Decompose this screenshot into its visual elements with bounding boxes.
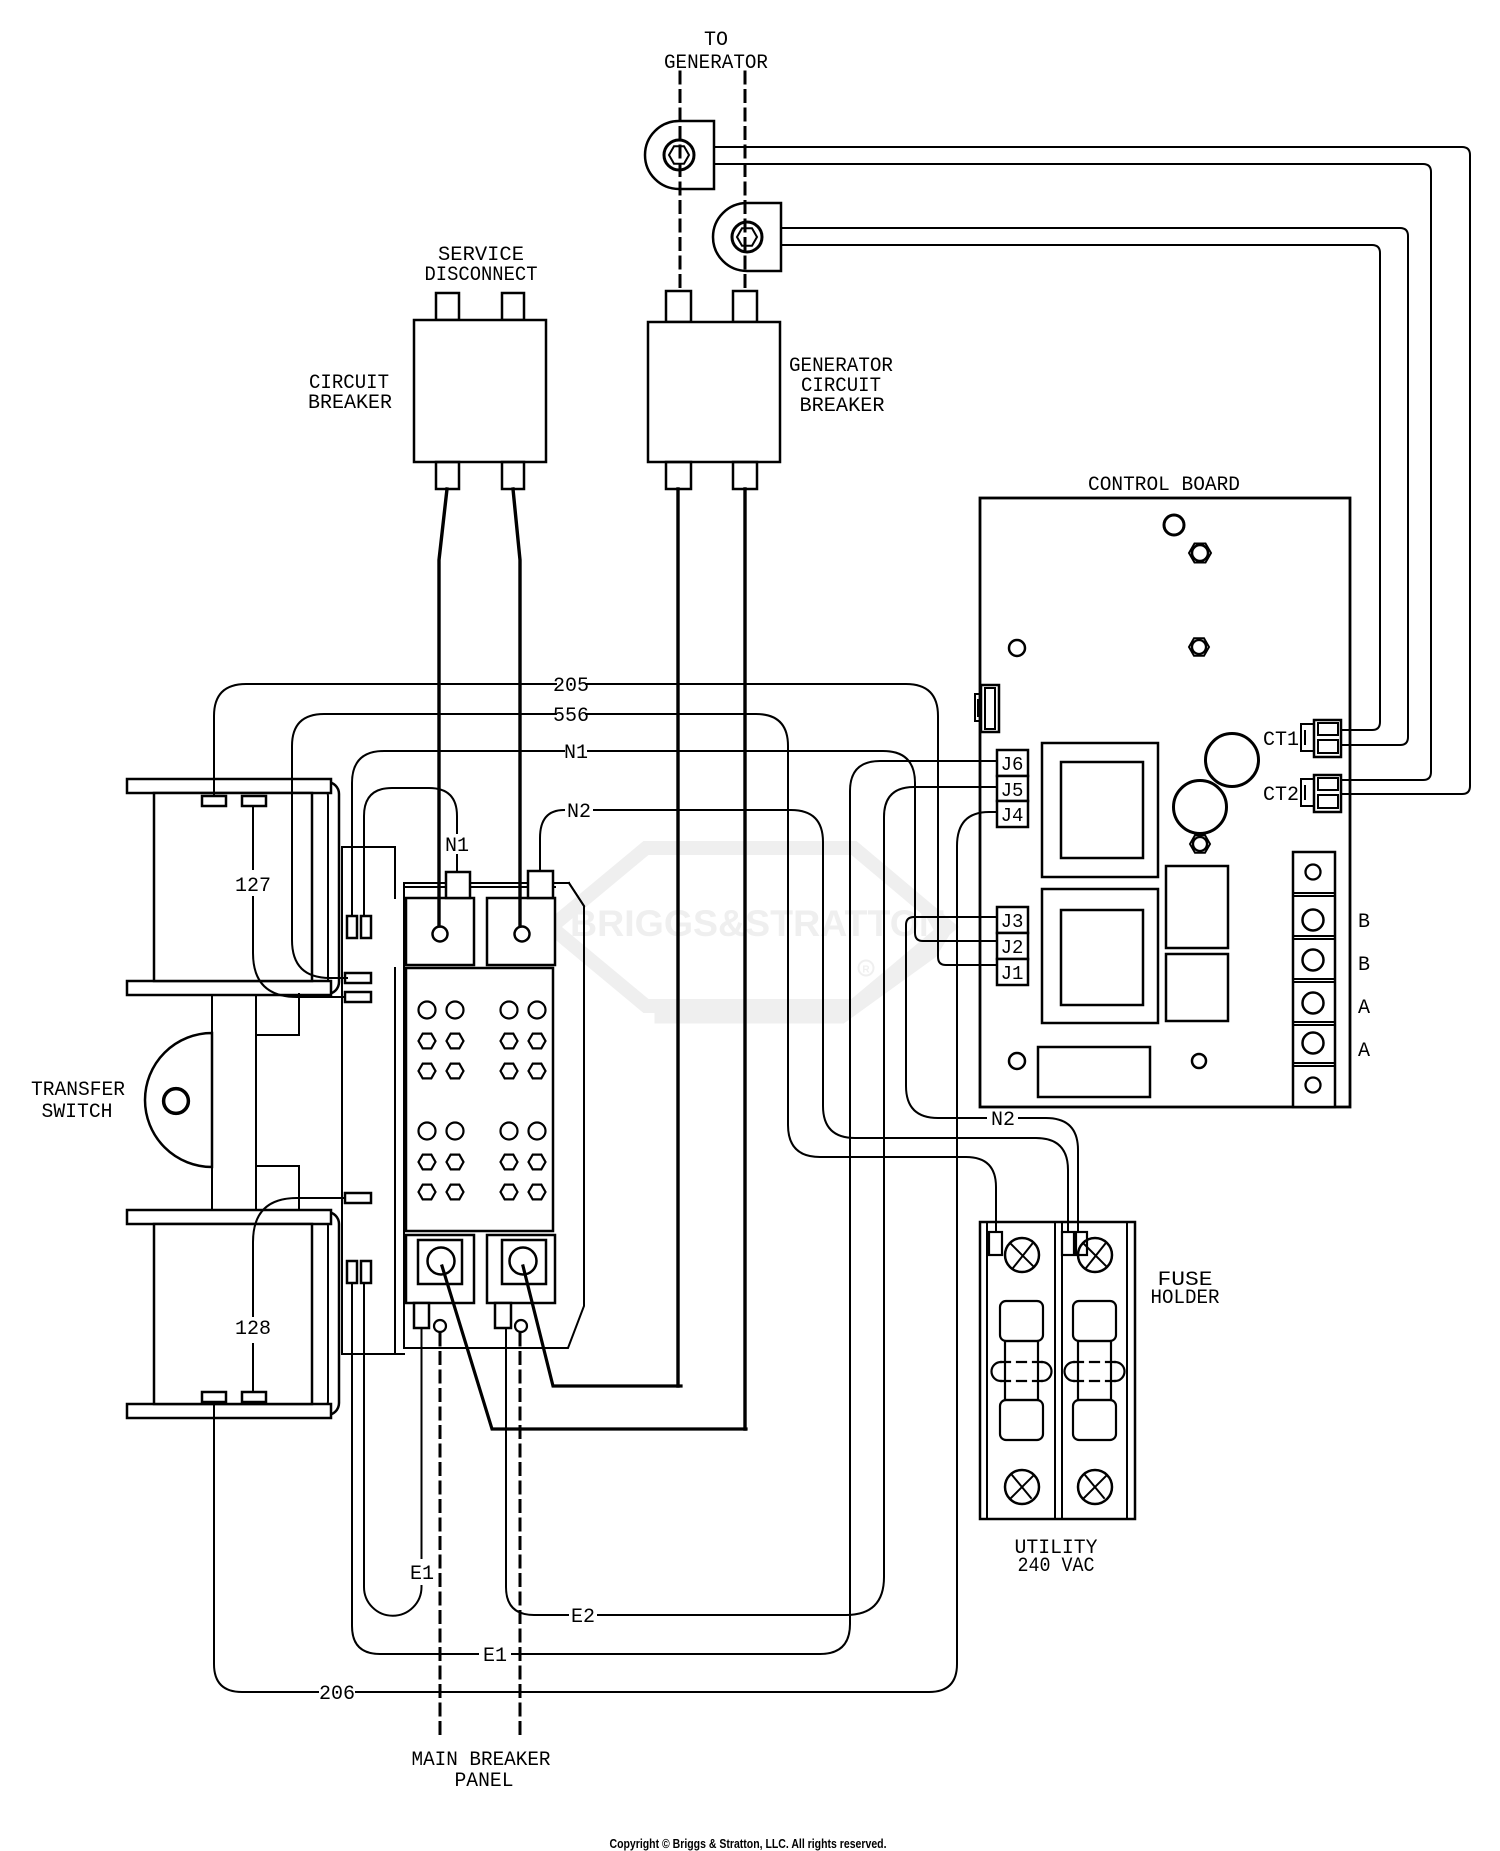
main lug grid section xyxy=(406,968,553,1231)
lug bottom pin right xyxy=(495,1303,527,1332)
fuse screw bottom-right xyxy=(1078,1470,1112,1504)
main lug block top band xyxy=(404,883,584,1348)
board hole mid xyxy=(1189,638,1209,655)
board hole bottom-left xyxy=(1009,1053,1025,1069)
capacitor C1 xyxy=(1206,734,1259,787)
svg-text:E1: E1 xyxy=(410,1563,434,1586)
svg-text:CT1: CT1 xyxy=(1263,729,1299,752)
coil 127 terminal bar left xyxy=(202,796,226,806)
watermark xyxy=(551,848,948,1018)
label TO GENERATOR xyxy=(664,29,768,75)
terminal bar aux lower xyxy=(345,1193,371,1203)
connector J1 xyxy=(997,959,1028,985)
transfer switch coil 128 body xyxy=(154,1224,312,1404)
generator circuit breaker xyxy=(648,291,780,489)
control board outline xyxy=(980,498,1350,1107)
transfer switch coil 128 frame xyxy=(205,1212,339,1415)
wire 205 xyxy=(214,684,997,965)
fuse screw top-left xyxy=(1005,1238,1039,1272)
connector pair lower xyxy=(347,1261,371,1283)
main lug lug box right xyxy=(487,1235,555,1303)
fuse terminal F2a xyxy=(1062,1232,1074,1255)
fuse element right xyxy=(1065,1301,1125,1440)
transfer switch coil 127 flange bottom xyxy=(127,981,331,995)
fuse element left xyxy=(992,1301,1052,1440)
svg-text:N2: N2 xyxy=(567,801,591,824)
svg-text:DISCONNECT: DISCONNECT xyxy=(425,264,538,287)
svg-text:BRIGGS&STRATTON: BRIGGS&STRATTON xyxy=(570,903,946,944)
board mounting hole top xyxy=(1164,515,1184,535)
wire CT2 b xyxy=(781,245,1380,730)
wire 556 xyxy=(292,714,996,1232)
wire service disconnect right xyxy=(513,489,520,926)
wire 206 xyxy=(214,812,997,1692)
svg-text:BREAKER: BREAKER xyxy=(800,395,885,418)
svg-text:J3: J3 xyxy=(1001,911,1024,933)
svg-text:HOLDER: HOLDER xyxy=(1151,1287,1220,1310)
svg-text:J4: J4 xyxy=(1001,805,1024,827)
connector J3 xyxy=(997,907,1028,933)
terminal screw right xyxy=(515,927,530,942)
main lug terminal box N2 xyxy=(487,898,555,965)
current transformer CT1 xyxy=(645,121,714,189)
svg-text:A: A xyxy=(1358,1040,1370,1063)
svg-text:N2: N2 xyxy=(991,1109,1015,1132)
transfer switch armature step bottom xyxy=(256,1166,299,1210)
svg-text:R: R xyxy=(862,965,870,976)
label GENERATOR CIRCUIT BREAKER xyxy=(789,355,893,418)
svg-text:128: 128 xyxy=(235,1318,271,1341)
transfer switch coil 127 frame xyxy=(205,782,339,994)
fuse terminal F2b xyxy=(1076,1232,1087,1255)
coil 128 terminal bar left xyxy=(202,1392,226,1402)
svg-text:J2: J2 xyxy=(1001,937,1024,959)
transfer switch armature step top xyxy=(256,994,299,1035)
label UTILITY 240 VAC xyxy=(1015,1537,1098,1578)
service disconnect breaker xyxy=(414,293,546,489)
coil 128 terminal bar right xyxy=(242,1392,266,1402)
label TRANSFER SWITCH xyxy=(31,1079,125,1124)
label MAIN BREAKER PANEL xyxy=(412,1749,551,1793)
label SERVICE DISCONNECT xyxy=(425,244,538,287)
transfer switch coil 127 body xyxy=(154,793,312,981)
svg-text:CONTROL BOARD: CONTROL BOARD xyxy=(1088,474,1240,497)
svg-text:TRANSFER: TRANSFER xyxy=(31,1079,125,1102)
board hole left xyxy=(1009,640,1025,656)
wire E1 xyxy=(352,761,997,1654)
terminal screw left xyxy=(433,927,448,942)
svg-text:CT2: CT2 xyxy=(1263,784,1299,807)
label CIRCUIT BREAKER xyxy=(308,372,392,415)
board nut top xyxy=(1189,544,1211,563)
wire E1 lug U-turn xyxy=(364,1283,422,1616)
board bottom rect xyxy=(1038,1047,1150,1097)
main lug hex nut grid xyxy=(418,1002,545,1200)
svg-text:205: 205 xyxy=(553,675,589,698)
terminal square N2 xyxy=(528,871,553,898)
transfer switch actuator half-circle xyxy=(145,1033,212,1167)
wire N1 xyxy=(352,751,997,941)
svg-text:B: B xyxy=(1358,954,1370,977)
wire 127 label lead xyxy=(253,806,345,997)
svg-text:A: A xyxy=(1358,997,1370,1020)
wire service disconnect left xyxy=(439,489,447,926)
svg-text:TO: TO xyxy=(704,29,728,52)
wire generator breaker left xyxy=(676,489,679,1386)
svg-text:240 VAC: 240 VAC xyxy=(1018,1555,1095,1578)
board nut mid2 xyxy=(1190,835,1210,852)
relay K1 xyxy=(1042,743,1158,877)
svg-text:J1: J1 xyxy=(1001,963,1024,985)
wire generator breaker right xyxy=(743,489,746,1429)
fuse screw top-right xyxy=(1078,1238,1112,1272)
dashed wire main breaker right xyxy=(519,1334,522,1741)
svg-text:E2: E2 xyxy=(571,1606,595,1629)
connector J4 xyxy=(997,801,1028,827)
wire lug left to generator xyxy=(442,1266,746,1429)
wire CT1 a xyxy=(714,147,1470,794)
wire N1 terminal lead xyxy=(364,788,457,916)
transfer switch coil 128 flange bottom xyxy=(127,1404,331,1418)
board edge connector xyxy=(975,685,999,732)
transfer switch coil 128 flange top xyxy=(127,1210,331,1224)
component block R2 xyxy=(1166,954,1228,1021)
fuse screw bottom-left xyxy=(1005,1470,1039,1504)
wire E2 xyxy=(506,787,997,1615)
svg-text:B: B xyxy=(1358,911,1370,934)
svg-text:206: 206 xyxy=(319,1683,355,1706)
component block R1 xyxy=(1166,866,1228,948)
svg-text:J5: J5 xyxy=(1001,780,1024,802)
CT1 connector xyxy=(1301,720,1341,757)
svg-text:PANEL: PANEL xyxy=(455,1770,514,1793)
connector J2 xyxy=(997,933,1028,959)
transfer switch plunger rod xyxy=(212,995,256,1210)
svg-text:E1: E1 xyxy=(483,1645,507,1668)
terminal bar aux upper xyxy=(345,992,371,1002)
wire lug right to generator xyxy=(523,1266,681,1386)
svg-text:MAIN BREAKER: MAIN BREAKER xyxy=(412,1749,551,1772)
current transformer CT2 xyxy=(713,203,781,271)
dashed wire to generator right xyxy=(744,72,747,291)
coil 127 terminal bar right xyxy=(242,796,266,806)
main lug terminal box N1 xyxy=(406,898,474,965)
relay K2 xyxy=(1042,889,1158,1023)
main lug block 3D side xyxy=(404,883,584,1348)
connector J6 xyxy=(997,750,1028,776)
svg-text:J6: J6 xyxy=(1001,754,1024,776)
lug bottom pin left xyxy=(414,1303,446,1332)
svg-text:SWITCH: SWITCH xyxy=(42,1101,113,1124)
main lug lug box left xyxy=(406,1235,474,1303)
terminal square N1 xyxy=(446,872,470,898)
svg-text:127: 127 xyxy=(235,875,271,898)
connector pair upper xyxy=(347,916,371,938)
terminal bar 556 xyxy=(345,973,371,983)
CT2 connector xyxy=(1301,775,1341,812)
wire CT2 a xyxy=(781,228,1408,745)
svg-text:BREAKER: BREAKER xyxy=(308,392,392,415)
board hole bottom-mid xyxy=(1192,1054,1206,1068)
terminal strip xyxy=(1293,852,1335,1107)
capacitor C2 xyxy=(1174,781,1227,834)
dashed wire to generator left xyxy=(679,72,682,291)
wire 128 label lead xyxy=(253,1198,345,1392)
fuse terminal F1 xyxy=(989,1232,1002,1255)
wire N2 J3 branch xyxy=(906,917,1078,1232)
svg-text:N1: N1 xyxy=(564,742,588,765)
transfer switch coil 127 flange top xyxy=(127,779,331,793)
fuse holder body xyxy=(980,1222,1135,1519)
svg-text:Copyright © Briggs & Stratton,: Copyright © Briggs & Stratton, LLC. All … xyxy=(610,1837,887,1851)
mounting back plate xyxy=(342,847,404,1354)
wire CT1 b xyxy=(714,164,1431,780)
svg-text:N1: N1 xyxy=(445,835,469,858)
svg-text:556: 556 xyxy=(553,705,589,728)
connector J5 xyxy=(997,776,1028,801)
label FUSE HOLDER xyxy=(1151,1269,1220,1310)
dashed wire main breaker left xyxy=(439,1334,442,1741)
svg-text:GENERATOR: GENERATOR xyxy=(664,52,768,75)
wire N2 xyxy=(540,810,1068,1232)
